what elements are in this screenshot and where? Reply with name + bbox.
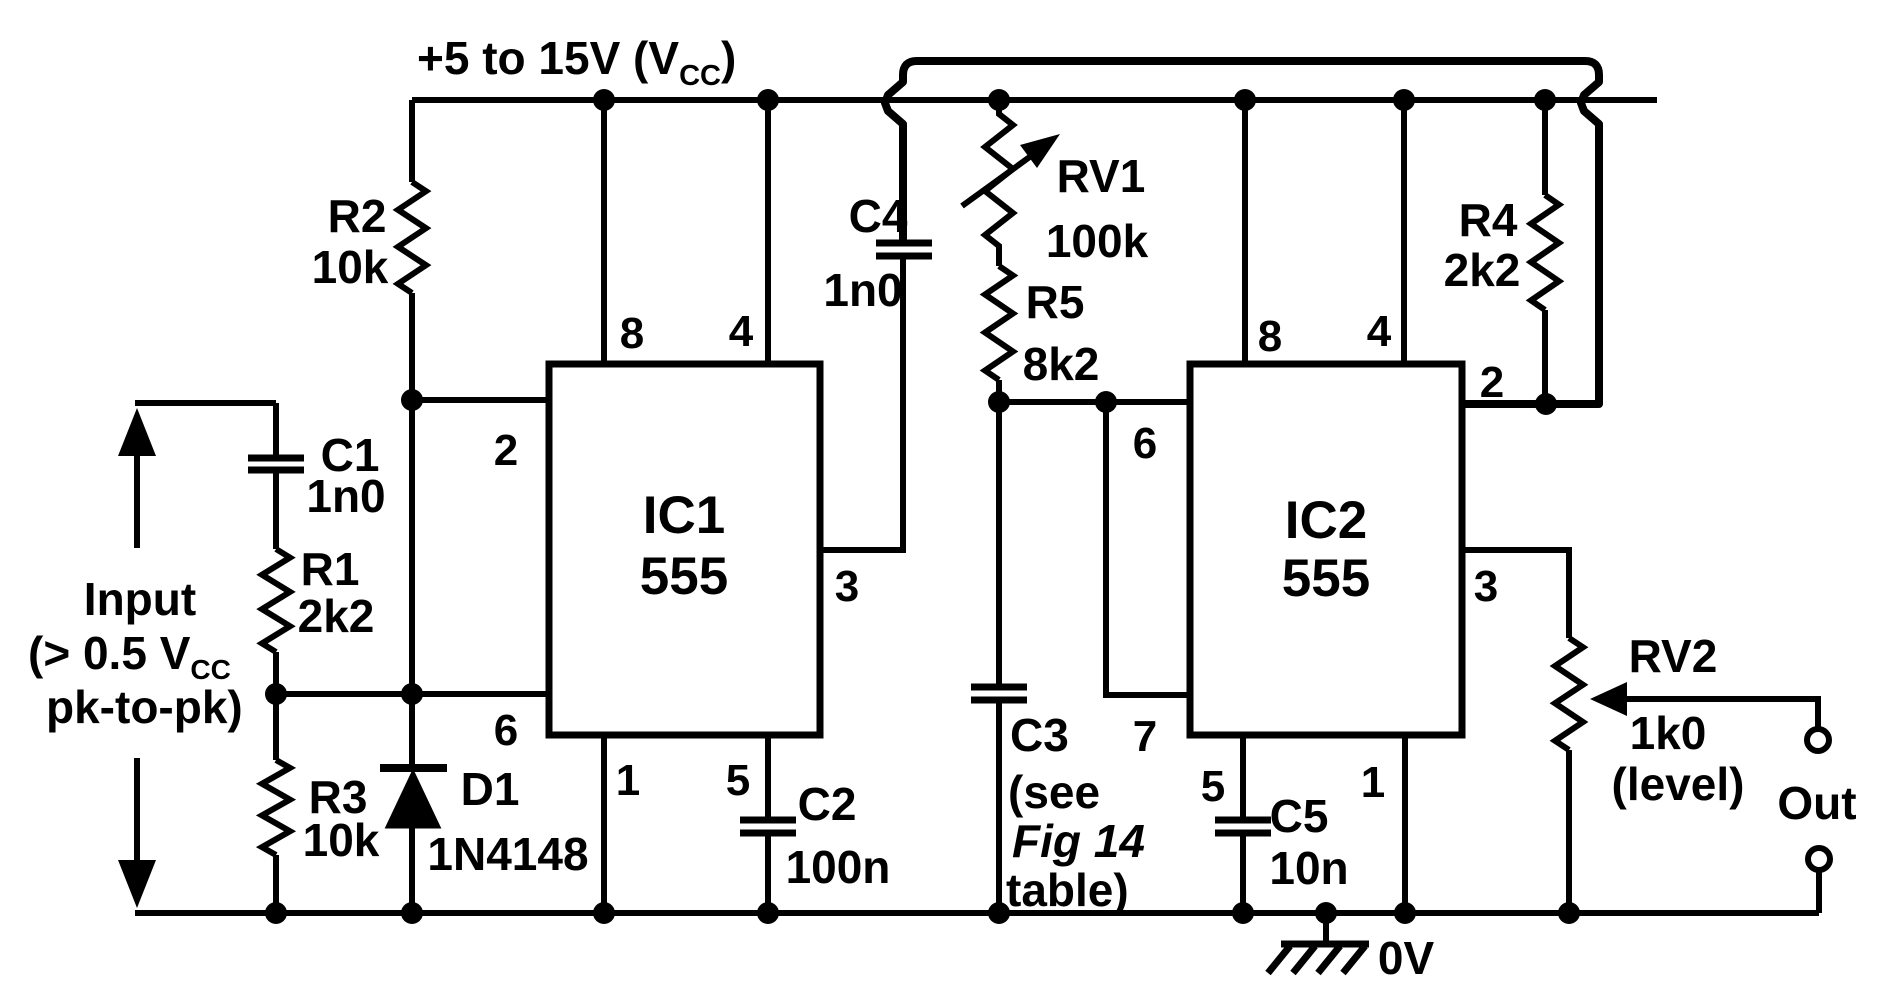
svg-text:4: 4 — [729, 307, 754, 356]
capacitor C3 — [971, 402, 1145, 916]
wire IC2 pin 1 — [1402, 735, 1408, 913]
svg-text:(level): (level) — [1612, 758, 1745, 810]
wire IC2 pin 3 — [1462, 550, 1569, 638]
svg-text:pk-to-pk): pk-to-pk) — [46, 681, 243, 733]
wire IC2 pin 6 net — [999, 399, 1190, 405]
svg-text:C3: C3 — [1010, 709, 1069, 761]
svg-text:1: 1 — [1361, 758, 1385, 807]
svg-text:RV1: RV1 — [1057, 150, 1146, 202]
resistor R5 8k2 — [985, 266, 1099, 402]
node R5 bottom junction — [988, 391, 1010, 413]
svg-text:100n: 100n — [786, 841, 891, 893]
op-amp box IC2 555 — [1190, 364, 1462, 735]
wire IC2 pin 5 — [1240, 735, 1246, 818]
svg-text:4: 4 — [1367, 307, 1392, 356]
svg-text:Fig 14: Fig 14 — [1012, 815, 1145, 867]
svg-text:6: 6 — [494, 706, 518, 755]
svg-text:R5: R5 — [1026, 276, 1085, 328]
op-amp box IC1 555 — [549, 364, 820, 735]
svg-text:2k2: 2k2 — [298, 590, 375, 642]
svg-text:2: 2 — [1480, 358, 1504, 407]
svg-text:1k0: 1k0 — [1630, 707, 1707, 759]
node R2/pin2 junction — [401, 389, 423, 411]
svg-text:5: 5 — [726, 756, 750, 805]
wire IC1 pin 6 net — [276, 691, 549, 697]
wire input top — [135, 400, 276, 406]
wire Vcc rail — [412, 97, 1657, 103]
svg-text:8: 8 — [620, 309, 644, 358]
capacitor C2 100n — [740, 778, 890, 913]
wire IC2 pin 8 — [1242, 100, 1248, 364]
svg-text:1: 1 — [616, 756, 640, 805]
resistor R1 2k2 — [262, 543, 374, 694]
svg-text:Input: Input — [84, 573, 196, 625]
svg-text:0V: 0V — [1378, 932, 1435, 984]
node R4 bottom junction — [1535, 393, 1557, 415]
svg-text:6: 6 — [1133, 419, 1157, 468]
svg-text:C2: C2 — [798, 778, 857, 830]
terminal Out upper — [1807, 729, 1829, 751]
svg-text:1n0: 1n0 — [306, 470, 385, 522]
svg-text:8: 8 — [1258, 312, 1282, 361]
svg-text:10n: 10n — [1269, 842, 1348, 894]
svg-text:C4: C4 — [849, 190, 908, 242]
capacitor C1 1n0 — [248, 403, 386, 549]
svg-text:5: 5 — [1201, 762, 1225, 811]
wire IC1 pin 2 — [412, 397, 549, 403]
wire top feedback link with crossover hops — [885, 61, 1599, 404]
svg-text:1n0: 1n0 — [823, 264, 902, 316]
svg-text:555: 555 — [1282, 549, 1370, 608]
wire IC2 pin 4 — [1401, 100, 1407, 364]
resistor R3 10k — [262, 694, 380, 913]
svg-text:Out: Out — [1777, 777, 1856, 829]
node D1 top junction — [401, 683, 423, 705]
wire IC1 pin 8 — [601, 100, 607, 364]
svg-text:7: 7 — [1133, 712, 1157, 761]
svg-text:R2: R2 — [328, 190, 387, 242]
wire IC1 pin 5 — [765, 735, 771, 818]
potentiometer RV2 1k0 — [1555, 630, 1818, 913]
terminal Out lower — [1808, 848, 1830, 870]
svg-text:2k2: 2k2 — [1444, 244, 1521, 296]
svg-text:(see: (see — [1008, 766, 1100, 818]
svg-text:RV2: RV2 — [1629, 630, 1718, 682]
node R1 bottom junction — [265, 683, 287, 705]
svg-text:1N4148: 1N4148 — [427, 828, 588, 880]
capacitor C4 1n0 — [823, 190, 932, 316]
input annotation arrow down — [118, 758, 156, 908]
svg-text:3: 3 — [835, 562, 859, 611]
svg-text:table): table) — [1006, 864, 1129, 916]
svg-text:C5: C5 — [1270, 790, 1329, 842]
svg-text:10k: 10k — [312, 241, 389, 293]
wire Out lower to ground — [1816, 871, 1822, 913]
svg-text:R1: R1 — [301, 543, 360, 595]
svg-text:IC1: IC1 — [643, 486, 725, 545]
wire pin2-to-pin6 link — [409, 400, 415, 694]
input annotation arrow up — [118, 408, 156, 548]
svg-text:R4: R4 — [1459, 194, 1518, 246]
resistor R2 — [312, 100, 426, 400]
svg-text:3: 3 — [1474, 562, 1498, 611]
resistor R4 2k2 — [1444, 100, 1559, 404]
wire IC2 pin 7 link — [1106, 402, 1190, 695]
svg-text:IC2: IC2 — [1285, 491, 1367, 550]
svg-text:555: 555 — [640, 547, 728, 606]
wire IC1 pin 1 — [601, 735, 607, 913]
svg-text:10k: 10k — [303, 814, 380, 866]
wire ground rail 0V — [135, 910, 1819, 916]
capacitor C5 10n — [1215, 790, 1349, 913]
wire IC1 pin 3 to C4 — [820, 258, 903, 550]
potentiometer RV1 100k — [962, 100, 1149, 267]
svg-text:8k2: 8k2 — [1023, 338, 1100, 390]
svg-text:2: 2 — [494, 426, 518, 475]
ground symbol 0V — [1268, 913, 1434, 984]
diode D1 1N4148 — [380, 694, 589, 913]
svg-text:100k: 100k — [1046, 215, 1149, 267]
wire IC1 pin 4 — [765, 100, 771, 364]
svg-text:D1: D1 — [461, 763, 520, 815]
